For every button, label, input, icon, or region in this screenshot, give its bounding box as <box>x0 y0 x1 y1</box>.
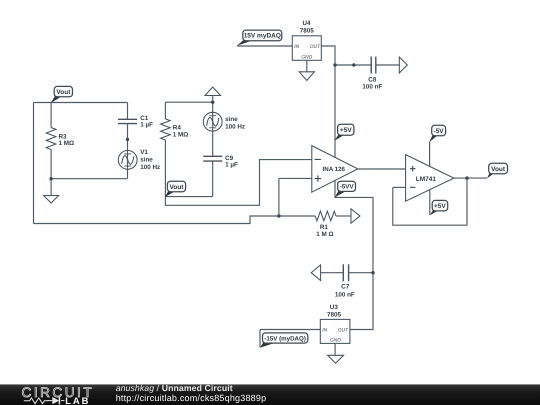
svg-text:1 µF: 1 µF <box>140 121 153 128</box>
svg-text:OUT: OUT <box>338 328 349 334</box>
svg-text:R1: R1 <box>320 224 329 231</box>
svg-text:http://circuitlab.com/cks85qhg: http://circuitlab.com/cks85qhg3889p <box>116 393 267 403</box>
svg-text:sine: sine <box>140 157 153 164</box>
svg-text:GND: GND <box>301 54 312 60</box>
svg-text:Vout: Vout <box>170 184 185 191</box>
svg-text:+5V: +5V <box>340 127 352 134</box>
svg-text:-15V (myDAQ): -15V (myDAQ) <box>264 335 306 342</box>
svg-text:1 µF: 1 µF <box>225 161 238 168</box>
svg-text:Vout: Vout <box>56 89 71 96</box>
svg-text:R4: R4 <box>173 124 182 131</box>
svg-text:anushkag / Unnamed Circuit: anushkag / Unnamed Circuit <box>116 383 233 393</box>
svg-text:IN: IN <box>322 328 327 334</box>
svg-text:V1: V1 <box>140 149 148 156</box>
svg-text:LM741: LM741 <box>416 176 437 183</box>
svg-text:-5V: -5V <box>434 128 445 135</box>
svg-text:U3: U3 <box>330 304 339 311</box>
svg-text:100 nF: 100 nF <box>335 292 355 299</box>
svg-text:GND: GND <box>330 338 341 344</box>
svg-text:7805: 7805 <box>300 28 315 35</box>
svg-text:IN: IN <box>294 44 299 50</box>
svg-text:7805: 7805 <box>327 312 342 319</box>
svg-text:+5V: +5V <box>434 203 446 210</box>
svg-text:OUT: OUT <box>310 44 321 50</box>
svg-text:C8: C8 <box>368 76 377 83</box>
svg-text:100 Hz: 100 Hz <box>225 124 245 131</box>
svg-text:1 MΩ: 1 MΩ <box>173 132 189 139</box>
svg-text:INA 126: INA 126 <box>323 166 346 173</box>
svg-text:1 M Ω: 1 M Ω <box>316 231 333 238</box>
svg-text:1 MΩ: 1 MΩ <box>59 140 75 147</box>
svg-text:-5VV: -5VV <box>340 184 355 191</box>
svg-text:100 Hz: 100 Hz <box>140 164 160 171</box>
svg-text:15V myDAQ: 15V myDAQ <box>244 33 281 40</box>
svg-text:U4: U4 <box>303 20 312 27</box>
svg-text:100 nF: 100 nF <box>362 84 382 91</box>
svg-text:sine: sine <box>225 116 238 123</box>
svg-text:C7: C7 <box>341 283 350 290</box>
svg-text:Vout: Vout <box>491 166 506 173</box>
svg-text:LAB: LAB <box>65 395 90 405</box>
